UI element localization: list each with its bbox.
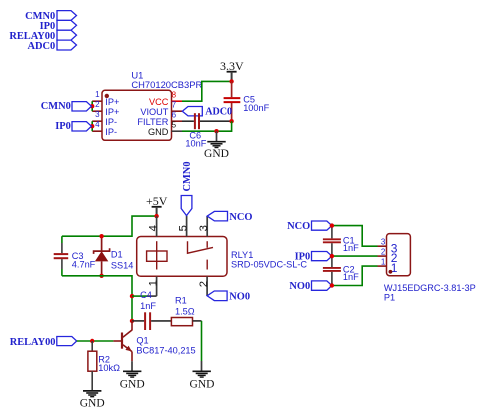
svg-text:VIOUT: VIOUT <box>140 107 168 117</box>
svg-text:+5V: +5V <box>146 194 168 208</box>
port RELAY00 (top-left stack) <box>9 30 76 42</box>
wire: NCO to P1 pin 3 <box>332 226 378 247</box>
svg-text:P1: P1 <box>384 293 395 303</box>
svg-text:NCO: NCO <box>229 212 252 223</box>
svg-text:D1: D1 <box>111 250 123 260</box>
svg-text:ADC0: ADC0 <box>205 106 232 117</box>
svg-text:IP0: IP0 <box>55 121 71 132</box>
svg-text:GND: GND <box>148 127 169 137</box>
wire: short green joining U1 pins 3-4 <box>91 121 93 131</box>
svg-text:10nF: 10nF <box>185 138 206 148</box>
svg-text:WJ15EDGRC-3.81-3P: WJ15EDGRC-3.81-3P <box>384 283 476 293</box>
transistor Q1 BC817 <box>113 321 195 361</box>
relay NO contact (internal) <box>206 260 208 270</box>
svg-text:FILTER: FILTER <box>137 117 168 127</box>
relay switch common (internal) <box>188 241 214 253</box>
port CMN0 at U1 <box>41 101 92 112</box>
port NCO (right section) <box>287 221 332 232</box>
svg-text:IP+: IP+ <box>105 97 119 107</box>
wire: IP0 to P1 pin 2 <box>332 255 378 257</box>
wire: RELAY00 to Q1 base <box>77 340 114 342</box>
port IP0 (top-left stack) <box>40 20 77 32</box>
port NO0 (right section) <box>289 281 331 292</box>
svg-text:GND: GND <box>80 398 105 410</box>
svg-text:1: 1 <box>147 280 159 286</box>
node: IP0 junction <box>330 254 334 258</box>
relay pin 3 <box>198 216 210 236</box>
port NCO at relay pin 3 <box>207 211 252 223</box>
P1 pin 2 <box>378 247 398 265</box>
svg-text:IP0: IP0 <box>295 252 311 263</box>
resistor R2 10kΩ <box>88 341 120 391</box>
svg-text:1.5Ω: 1.5Ω <box>175 307 195 317</box>
wire: bottom loop to collector <box>62 276 132 321</box>
svg-text:10kΩ: 10kΩ <box>98 363 120 373</box>
svg-text:RELAY00: RELAY00 <box>10 337 56 348</box>
ground GND (U1) <box>204 131 229 160</box>
IC U1 body CH70120CB3PR <box>102 90 172 140</box>
wire: 3.3V to U1 pin 8 <box>182 81 232 101</box>
relay pin 1 <box>132 276 159 296</box>
relay coil lead (internal) <box>156 241 158 269</box>
relay RLY1 body <box>137 237 227 277</box>
P1 pin 1 <box>378 257 398 275</box>
U1 pin 4 IP- <box>92 120 117 137</box>
U1 pin-1 marker dot <box>105 94 109 98</box>
P1 pin-1 marker dot <box>389 270 393 274</box>
node: D1 bottom junction <box>99 274 103 278</box>
svg-text:1: 1 <box>381 257 386 266</box>
relay coil <box>147 251 167 261</box>
port NO0 at relay pin 2 <box>207 291 250 303</box>
relay pin 2 <box>198 276 210 295</box>
U1 pin 1 IP+ <box>92 90 119 107</box>
svg-text:3: 3 <box>198 225 210 231</box>
svg-text:100nF: 100nF <box>243 103 269 113</box>
svg-text:7: 7 <box>172 100 177 109</box>
power +5V <box>146 194 168 216</box>
power 3.3V <box>220 59 244 82</box>
ground GND (R1) <box>190 361 215 391</box>
svg-text:2: 2 <box>381 247 386 256</box>
port ADC0 (top-left stack) <box>27 40 76 52</box>
svg-text:NO0: NO0 <box>289 281 310 292</box>
node: collector / C4 junction <box>130 319 134 323</box>
wire: U1 pin 5 to GND and riser <box>182 121 232 131</box>
relay pin 5 <box>177 216 189 237</box>
node: junction pin5/GND <box>214 129 218 133</box>
capacitor C4 1nF <box>132 290 171 330</box>
U1 pin 5 GND <box>148 120 182 137</box>
port ADC0 at U1 pin 7 <box>182 106 232 117</box>
ground GND (R2) <box>80 391 105 410</box>
node: junction dot at U1 pins1-2 / CMN0 <box>90 104 94 108</box>
svg-text:1nF: 1nF <box>343 243 359 253</box>
node: NO0 junction <box>330 283 334 287</box>
ground GND (Q1 emitter) <box>120 361 145 390</box>
capacitor C2 1nF <box>323 256 359 285</box>
connector P1 body <box>387 234 411 276</box>
capacitor C1 1nF <box>323 226 359 257</box>
svg-text:3: 3 <box>95 110 100 119</box>
svg-text:Q1: Q1 <box>136 335 148 345</box>
svg-text:2: 2 <box>198 281 210 287</box>
U1 pin 7 VIOUT <box>140 100 182 117</box>
diode D1 SS14 <box>94 236 134 276</box>
port RELAY00 <box>10 337 77 348</box>
node: RELAY00 / R2 junction <box>90 339 94 343</box>
svg-text:CH70120CB3PR: CH70120CB3PR <box>131 79 202 90</box>
relay NC contact (internal) <box>206 241 208 248</box>
wire: short green joining U1 pins 1-2 <box>91 101 93 111</box>
svg-text:5: 5 <box>172 120 177 129</box>
svg-text:6: 6 <box>172 110 177 119</box>
port IP0 (right section) <box>295 252 332 263</box>
node: pin1 / loop junction <box>130 294 134 298</box>
svg-text:4: 4 <box>147 225 159 231</box>
node: D1 top junction <box>99 234 103 238</box>
svg-text:1nF: 1nF <box>140 301 156 311</box>
svg-text:4: 4 <box>95 120 100 129</box>
svg-text:CMN0: CMN0 <box>182 161 193 191</box>
svg-text:NO0: NO0 <box>229 292 250 303</box>
U1 pin 8 VCC <box>149 90 182 107</box>
node: junction C5/C6/pin5 riser <box>229 119 233 123</box>
svg-text:5: 5 <box>177 225 189 231</box>
U1 pin 2 IP+ <box>92 100 119 117</box>
svg-text:SS14: SS14 <box>111 260 133 270</box>
wire: NO0 to P1 pin 1 <box>332 266 378 285</box>
svg-text:1nF: 1nF <box>343 272 359 282</box>
svg-text:IP-: IP- <box>105 127 117 137</box>
node: 3.3V junction <box>229 79 233 83</box>
node: NCO junction <box>330 223 334 227</box>
svg-text:1: 1 <box>95 90 100 99</box>
svg-text:IP-: IP- <box>105 117 117 127</box>
svg-text:GND: GND <box>190 379 215 391</box>
wire: +5V to left loop <box>62 216 157 236</box>
resistor R1 1.5Ω <box>171 296 201 326</box>
node: +5V / relay pin 4 junction <box>154 214 158 218</box>
U1 pin 6 FILTER <box>137 110 182 127</box>
svg-text:C4: C4 <box>140 290 152 300</box>
port IP0 at U1 <box>55 121 91 132</box>
relay pin 4 <box>147 216 159 236</box>
svg-text:1: 1 <box>391 261 398 275</box>
capacitor C3 4.7nF <box>54 236 96 276</box>
svg-text:2: 2 <box>95 100 100 109</box>
wire: R1 to GND <box>201 321 203 361</box>
port CMN0 (top-left stack) <box>25 11 76 23</box>
port CMN0 at relay pin 5 (down) <box>181 196 192 216</box>
svg-text:3: 3 <box>381 237 386 246</box>
svg-text:GND: GND <box>204 148 229 160</box>
svg-text:BC817-40,215: BC817-40,215 <box>136 345 195 355</box>
capacitor C6 10nF (series on FILTER wire) <box>182 113 232 148</box>
P1 pin 3 <box>378 237 398 255</box>
svg-text:CMN0: CMN0 <box>41 101 71 112</box>
capacitor C5 100nF <box>224 81 270 121</box>
svg-text:ADC0: ADC0 <box>27 41 55 52</box>
svg-text:R1: R1 <box>175 296 187 306</box>
node: junction dot at U1 pins3-4 / IP0 <box>90 124 94 128</box>
U1 pin 3 IP- <box>92 110 117 127</box>
svg-text:GND: GND <box>120 379 145 391</box>
svg-text:IP+: IP+ <box>105 107 119 117</box>
svg-text:NCO: NCO <box>287 221 310 232</box>
svg-text:3.3V: 3.3V <box>220 59 244 73</box>
svg-text:VCC: VCC <box>149 97 169 107</box>
svg-text:4.7nF: 4.7nF <box>72 260 96 270</box>
svg-text:8: 8 <box>172 90 177 99</box>
